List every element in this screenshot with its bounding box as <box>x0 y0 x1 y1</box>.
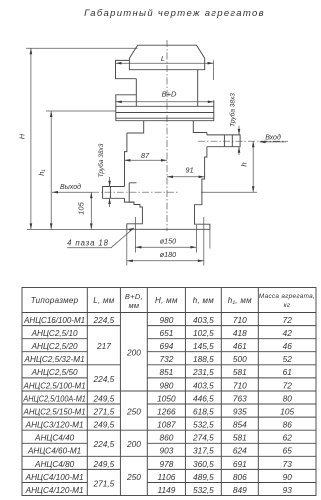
svg-text:АНЦС4/40: АНЦС4/40 <box>34 434 75 443</box>
svg-text:651: 651 <box>159 328 173 338</box>
svg-text:АНЦС4/120-М1: АНЦС4/120-М1 <box>25 486 84 495</box>
svg-text:935: 935 <box>233 407 247 417</box>
svg-text:274,5: 274,5 <box>192 433 214 443</box>
label vhod <box>260 133 287 143</box>
svg-text:581: 581 <box>233 367 247 377</box>
casing left below pipe <box>125 198 143 229</box>
svg-text:360,5: 360,5 <box>193 459 214 469</box>
table grid <box>22 288 316 496</box>
svg-text:АНЦС2,5/50: АНЦС2,5/50 <box>31 368 78 377</box>
svg-text:250: 250 <box>126 407 141 417</box>
svg-text:61: 61 <box>283 367 292 377</box>
motor frame left <box>135 79 137 107</box>
casing right side <box>195 133 210 230</box>
svg-text:АНЦС2,5/100-М1: АНЦС2,5/100-М1 <box>23 381 86 390</box>
svg-text:249,5: 249,5 <box>93 393 115 403</box>
svg-text:Выход: Выход <box>60 183 81 191</box>
svg-text:461: 461 <box>233 341 247 351</box>
svg-text:80: 80 <box>283 393 293 403</box>
svg-text:42: 42 <box>283 328 293 338</box>
table col1 <box>22 316 85 495</box>
inlet pipe axis <box>198 140 288 142</box>
svg-text:102,5: 102,5 <box>193 328 214 338</box>
svg-text:мм: мм <box>128 301 139 310</box>
svg-text:446,5: 446,5 <box>193 393 214 403</box>
svg-text:105: 105 <box>280 407 294 417</box>
neck <box>127 121 207 133</box>
svg-text:532,5: 532,5 <box>193 485 214 495</box>
dim 91 <box>167 166 205 179</box>
svg-text:65: 65 <box>283 446 293 456</box>
table col h <box>192 315 214 495</box>
svg-text:4 паза 18: 4 паза 18 <box>67 239 109 248</box>
row lines col BD <box>120 391 147 456</box>
casing left side <box>125 133 137 202</box>
svg-text:Н: Н <box>18 133 27 139</box>
dim phi150 <box>135 217 196 253</box>
table header <box>31 292 315 310</box>
svg-text:h: h <box>240 162 249 166</box>
svg-text:691: 691 <box>233 459 247 469</box>
svg-text:581: 581 <box>233 433 247 443</box>
svg-text:980: 980 <box>159 380 173 390</box>
dim phi180 <box>127 217 210 266</box>
svg-text:500: 500 <box>233 354 247 364</box>
svg-text:403,5: 403,5 <box>193 315 214 325</box>
svg-text:249,5: 249,5 <box>93 420 115 430</box>
svg-text:317,5: 317,5 <box>193 446 214 456</box>
svg-text:72: 72 <box>283 315 293 325</box>
svg-text:В+D: В+D <box>162 90 177 99</box>
svg-text:403,5: 403,5 <box>193 380 214 390</box>
svg-text:732: 732 <box>159 354 173 364</box>
svg-text:Габаритный чертеж агрегатов: Габаритный чертеж агрегатов <box>84 8 265 19</box>
svg-text:ø150: ø150 <box>160 237 176 246</box>
svg-text:91: 91 <box>185 166 193 175</box>
svg-text:L: L <box>161 54 165 63</box>
table col H <box>157 315 176 495</box>
dim L <box>116 54 214 80</box>
svg-text:224,5: 224,5 <box>93 439 115 449</box>
svg-text:Н, мм: Н, мм <box>155 296 178 305</box>
terminal box <box>116 60 137 78</box>
dim h1 <box>37 111 116 229</box>
svg-text:532,5: 532,5 <box>193 420 214 430</box>
svg-text:АНЦС3/120-М1: АНЦС3/120-М1 <box>25 421 84 430</box>
svg-text:710: 710 <box>233 315 247 325</box>
svg-text:224,5: 224,5 <box>93 315 115 325</box>
svg-text:271,5: 271,5 <box>93 478 115 488</box>
dim truba left <box>97 143 111 207</box>
svg-text:231,5: 231,5 <box>192 367 214 377</box>
svg-text:52: 52 <box>283 354 293 364</box>
svg-text:87: 87 <box>141 151 150 160</box>
svg-text:105: 105 <box>77 201 86 214</box>
dim truba right <box>229 93 241 155</box>
svg-text:46: 46 <box>283 341 293 351</box>
svg-text:86: 86 <box>283 420 293 430</box>
svg-text:АНЦС4/80: АНЦС4/80 <box>34 460 75 469</box>
svg-text:217: 217 <box>96 341 111 351</box>
svg-text:АНЦС2,5/150-М1: АНЦС2,5/150-М1 <box>23 408 86 417</box>
svg-text:Масса агрегата,: Масса агрегата, <box>259 293 315 300</box>
dim 87 <box>124 151 167 162</box>
svg-text:145,5: 145,5 <box>193 341 214 351</box>
svg-text:418: 418 <box>233 328 247 338</box>
table col L <box>93 315 115 489</box>
svg-text:694: 694 <box>159 341 173 351</box>
svg-text:h₁, мм: h₁, мм <box>228 296 252 305</box>
svg-text:АНЦС4/100-М1: АНЦС4/100-М1 <box>25 473 84 482</box>
svg-text:188,5: 188,5 <box>193 354 214 364</box>
svg-text:1087: 1087 <box>157 420 176 430</box>
label vyhod <box>52 183 92 194</box>
row lines col L <box>87 326 120 470</box>
svg-text:АНЦС16/100-М1: АНЦС16/100-М1 <box>23 316 85 325</box>
svg-text:851: 851 <box>159 367 173 377</box>
centerline vertical <box>166 40 168 231</box>
outlet pipe axis <box>92 191 178 193</box>
svg-text:АНЦС2,5/100А-М1: АНЦС2,5/100А-М1 <box>22 394 85 403</box>
svg-text:АНЦС2,5/10: АНЦС2,5/10 <box>31 329 78 338</box>
svg-text:Труба 38х3: Труба 38х3 <box>229 93 237 127</box>
stand bands <box>116 106 214 120</box>
svg-text:978: 978 <box>159 459 173 469</box>
row lines col H <box>147 326 316 483</box>
svg-text:h, мм: h, мм <box>193 296 215 305</box>
svg-text:72: 72 <box>283 380 293 390</box>
svg-text:90: 90 <box>283 472 293 482</box>
step plate <box>116 95 214 121</box>
svg-text:Вход: Вход <box>265 133 281 141</box>
svg-text:93: 93 <box>283 485 293 495</box>
table col massa <box>280 315 294 495</box>
row lines col typ <box>22 326 87 483</box>
svg-text:Типоразмер: Типоразмер <box>31 296 79 305</box>
outlet pipe <box>103 187 125 199</box>
svg-text:h₁: h₁ <box>37 169 46 176</box>
leader 4 paza 18 <box>67 228 134 248</box>
dim H <box>18 48 138 229</box>
svg-text:249,5: 249,5 <box>93 459 115 469</box>
svg-text:1106: 1106 <box>157 472 175 482</box>
dim h <box>201 141 257 192</box>
svg-text:224,5: 224,5 <box>93 374 115 384</box>
motor frame right <box>197 70 199 107</box>
svg-text:200: 200 <box>126 348 141 358</box>
svg-text:В+D,: В+D, <box>125 292 143 301</box>
base bottom <box>127 228 210 230</box>
table col h1 <box>233 315 247 495</box>
svg-text:250: 250 <box>126 472 141 482</box>
svg-text:618,5: 618,5 <box>193 407 214 417</box>
svg-text:L, мм: L, мм <box>93 296 115 305</box>
svg-text:АНЦС2,5/32-М1: АНЦС2,5/32-М1 <box>24 355 85 364</box>
svg-text:763: 763 <box>233 393 247 403</box>
svg-text:849: 849 <box>233 485 247 495</box>
svg-text:62: 62 <box>283 433 293 443</box>
svg-text:АНЦС2,5/20: АНЦС2,5/20 <box>31 342 78 351</box>
svg-text:ø180: ø180 <box>160 250 176 259</box>
table col BD <box>126 348 141 482</box>
svg-text:489,5: 489,5 <box>193 472 214 482</box>
dim 105 <box>77 192 93 229</box>
svg-text:710: 710 <box>233 380 247 390</box>
svg-text:73: 73 <box>283 459 293 469</box>
inlet pipe <box>207 135 240 147</box>
svg-text:кг: кг <box>284 302 291 309</box>
svg-text:806: 806 <box>233 472 247 482</box>
svg-text:200: 200 <box>126 439 141 449</box>
svg-text:Труба 38х3: Труба 38х3 <box>97 143 105 177</box>
svg-text:624: 624 <box>233 446 247 456</box>
svg-text:980: 980 <box>159 315 173 325</box>
svg-text:860: 860 <box>159 433 173 443</box>
svg-text:1050: 1050 <box>157 393 176 403</box>
svg-text:903: 903 <box>159 446 173 456</box>
svg-text:АНЦС4/60-М1: АНЦС4/60-М1 <box>27 447 81 456</box>
fan cover <box>129 45 204 69</box>
svg-text:271,5: 271,5 <box>93 407 115 417</box>
svg-text:854: 854 <box>233 420 247 430</box>
dim B+D <box>116 90 214 104</box>
svg-text:1149: 1149 <box>157 485 175 495</box>
svg-text:1266: 1266 <box>157 407 176 417</box>
